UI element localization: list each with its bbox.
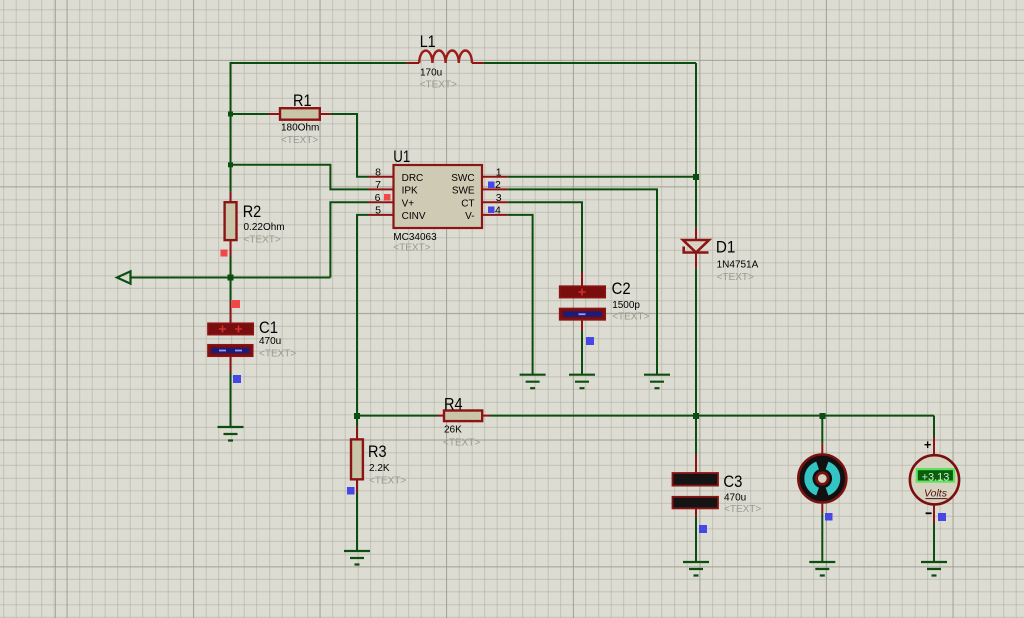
- text placeholder C1: [259, 349, 296, 360]
- svg-text:<TEXT>: <TEXT>: [259, 349, 296, 360]
- wire pin1 to D1 node: [508, 176, 696, 178]
- wire pin2 to ground: [508, 189, 657, 374]
- svg-text:<TEXT>: <TEXT>: [244, 235, 281, 246]
- text placeholder R1: [281, 135, 318, 146]
- svg-text:L1: L1: [420, 33, 436, 51]
- svg-text:<TEXT>: <TEXT>: [724, 504, 761, 515]
- svg-text:470u: 470u: [724, 493, 746, 504]
- pin name DRC: [402, 173, 424, 184]
- U1 pin 8 stub: [369, 176, 394, 178]
- pin name SWE: [452, 186, 475, 197]
- wire pin6 to input node: [330, 202, 368, 277]
- wire D1 top: [695, 63, 697, 228]
- svg-text:<TEXT>: <TEXT>: [443, 438, 480, 449]
- wire C3 bottom: [695, 517, 697, 562]
- zener diode D1: [683, 228, 709, 269]
- ground pin2: [644, 375, 670, 389]
- svg-text:170u: 170u: [420, 68, 442, 79]
- label C3: [723, 473, 742, 491]
- wire top right horizontal: [483, 62, 696, 64]
- input terminal arrow: [117, 271, 131, 283]
- label C2: [612, 280, 631, 298]
- ground C1: [218, 427, 244, 441]
- wire left vertical main: [230, 62, 232, 192]
- value 1N4751A: [717, 260, 759, 271]
- pin name V-: [465, 211, 474, 222]
- text placeholder U1: [393, 243, 430, 254]
- U1 pin 1 stub: [482, 176, 508, 178]
- svg-text:8: 8: [375, 167, 381, 179]
- pin name IPK: [402, 186, 418, 197]
- value 470u: [259, 336, 281, 347]
- text placeholder L1: [420, 80, 457, 91]
- probe marker blue voltmeter: [938, 513, 946, 521]
- probe marker blue C3: [699, 525, 707, 533]
- pin name SWC: [451, 173, 474, 184]
- svg-text:CINV: CINV: [402, 211, 426, 222]
- capacitor C1: [208, 301, 253, 372]
- ground C3: [683, 562, 709, 576]
- svg-text:R3: R3: [368, 443, 387, 461]
- svg-text:U1: U1: [393, 148, 410, 166]
- svg-text:R4: R4: [444, 396, 463, 414]
- node junction motor: [820, 413, 826, 419]
- op-amp U1 MC34063 body: [394, 165, 483, 228]
- ground motor: [809, 562, 835, 576]
- value 180Ohm: [281, 123, 319, 134]
- pin number 4: [495, 205, 501, 217]
- pin name V+: [402, 199, 415, 210]
- label R2: [243, 203, 262, 221]
- label R1: [293, 92, 312, 110]
- svg-text:V+: V+: [402, 199, 415, 210]
- svg-text:+3.13: +3.13: [922, 471, 950, 483]
- text placeholder R4: [443, 438, 480, 449]
- node junction R3/R4: [354, 413, 360, 419]
- svg-text:SWC: SWC: [451, 173, 474, 184]
- ground voltmeter: [921, 562, 947, 576]
- pin number 8: [375, 167, 381, 179]
- svg-text:180Ohm: 180Ohm: [281, 123, 319, 134]
- label C1: [259, 319, 278, 337]
- U1 pin 7 stub: [369, 188, 394, 190]
- pin number 5: [375, 205, 381, 217]
- voltmeter minus sign: [926, 512, 932, 514]
- resistor R2: [225, 192, 237, 257]
- value 0.22Ohm: [244, 222, 285, 233]
- wire R3 top: [356, 416, 358, 427]
- U1 pin 5 stub: [369, 214, 394, 216]
- wire voltmeter top: [933, 416, 935, 437]
- probe marker red C1: [232, 300, 240, 308]
- wire pin5 to R4 node: [357, 215, 369, 416]
- value 1500p: [612, 300, 640, 311]
- label R3: [368, 443, 387, 461]
- text placeholder C3: [724, 504, 761, 515]
- probe marker red R2: [221, 250, 228, 257]
- svg-text:<TEXT>: <TEXT>: [717, 272, 754, 283]
- wire R4 left: [357, 415, 437, 417]
- svg-text:+: +: [924, 438, 931, 452]
- svg-text:IPK: IPK: [402, 186, 418, 197]
- text placeholder R3: [369, 476, 406, 487]
- svg-text:C2: C2: [612, 280, 631, 298]
- probe marker blue pin2: [488, 182, 495, 189]
- probe marker blue R3: [347, 487, 355, 495]
- label L1: [420, 33, 436, 51]
- voltmeter plus sign: [924, 438, 931, 452]
- label D1: [716, 239, 736, 257]
- node junction pin7 tap: [228, 162, 233, 167]
- pin number 7: [375, 179, 381, 191]
- wire R2 bottom to C1: [230, 257, 232, 301]
- capacitor C2: [560, 272, 606, 332]
- svg-text:7: 7: [375, 179, 381, 191]
- svg-text:Volts: Volts: [924, 488, 948, 500]
- U1 pin 6 stub: [369, 201, 394, 203]
- wire node to pin7: [231, 165, 369, 190]
- svg-text:<TEXT>: <TEXT>: [420, 80, 457, 91]
- probe marker blue motor: [825, 513, 833, 521]
- resistor R4: [437, 411, 490, 422]
- probe marker blue C1: [233, 375, 241, 383]
- pin number 6: [375, 192, 381, 204]
- U1 pin 4 stub: [482, 214, 508, 216]
- node junction C3: [693, 413, 699, 419]
- svg-text:V-: V-: [465, 211, 474, 222]
- svg-text:4: 4: [495, 205, 501, 217]
- wire motor top: [821, 416, 823, 444]
- svg-text:0.22Ohm: 0.22Ohm: [244, 222, 285, 233]
- wire C2 bottom to ground: [581, 331, 583, 375]
- text placeholder R2: [244, 235, 281, 246]
- pin number 3: [496, 192, 502, 204]
- wire C1 bottom to ground: [230, 372, 232, 427]
- wire pin4 to ground: [508, 215, 533, 375]
- value 2.2K: [369, 463, 390, 474]
- svg-text:3: 3: [496, 192, 502, 204]
- svg-text:2.2K: 2.2K: [369, 463, 390, 474]
- svg-text:470u: 470u: [259, 336, 281, 347]
- probe marker blue pin4: [488, 207, 495, 214]
- value 26K: [444, 425, 462, 436]
- svg-text:1N4751A: 1N4751A: [717, 260, 759, 271]
- svg-text:DRC: DRC: [402, 173, 424, 184]
- pin number 2: [495, 179, 501, 191]
- svg-text:<TEXT>: <TEXT>: [612, 312, 649, 323]
- svg-text:5: 5: [375, 205, 381, 217]
- value MC34063: [393, 232, 437, 243]
- svg-text:C1: C1: [259, 319, 278, 337]
- wire top left horizontal: [231, 62, 407, 64]
- svg-text:CT: CT: [461, 199, 474, 210]
- U1 pin 3 stub: [482, 201, 508, 203]
- node junction pin1/D1: [693, 174, 699, 180]
- label U1: [393, 148, 410, 166]
- svg-text:1: 1: [496, 167, 502, 179]
- ground pin4: [520, 375, 546, 389]
- ground C2: [569, 375, 595, 389]
- wire R1 left: [231, 113, 269, 115]
- svg-text:<TEXT>: <TEXT>: [393, 243, 430, 254]
- wire voltmeter bottom: [933, 523, 935, 562]
- svg-text:D1: D1: [716, 239, 736, 257]
- text placeholder D1: [717, 272, 754, 283]
- svg-text:MC34063: MC34063: [393, 232, 437, 243]
- resistor R3: [351, 427, 363, 493]
- resistor R1: [269, 108, 331, 120]
- capacitor C3: [673, 455, 719, 518]
- wire R1 right to pin8: [331, 114, 369, 177]
- wire input horizontal: [131, 277, 331, 279]
- svg-text:<TEXT>: <TEXT>: [281, 135, 318, 146]
- pin name CINV: [402, 211, 426, 222]
- svg-text:2: 2: [495, 179, 501, 191]
- probe marker blue C2: [586, 337, 594, 345]
- svg-text:SWE: SWE: [452, 186, 475, 197]
- svg-text:<TEXT>: <TEXT>: [369, 476, 406, 487]
- U1 pin 2 stub: [482, 188, 508, 190]
- svg-text:1500p: 1500p: [612, 300, 640, 311]
- wire C3 top: [695, 416, 697, 455]
- svg-text:26K: 26K: [444, 425, 462, 436]
- wire output row: [490, 415, 934, 417]
- value 470u (C3): [724, 493, 746, 504]
- pin name CT: [461, 199, 474, 210]
- svg-text:C3: C3: [723, 473, 742, 491]
- text placeholder C2: [612, 312, 649, 323]
- voltmeter: [910, 437, 959, 523]
- svg-text:6: 6: [375, 192, 381, 204]
- wire pin3 to C2: [508, 202, 582, 271]
- node junction R1 tap: [228, 112, 233, 117]
- inductor L1: [407, 50, 484, 63]
- wire D1 bottom: [695, 269, 697, 416]
- value 170u: [420, 68, 442, 79]
- svg-text:R2: R2: [243, 203, 262, 221]
- pin number 1: [496, 167, 502, 179]
- label R4: [444, 396, 463, 414]
- motor: [798, 444, 846, 514]
- ground R3: [344, 551, 370, 565]
- probe marker red U1 pin6: [384, 194, 391, 201]
- node junction input: [228, 275, 234, 281]
- wire motor bottom: [821, 513, 823, 562]
- wire R3 bottom: [356, 493, 358, 551]
- svg-text:R1: R1: [293, 92, 312, 110]
